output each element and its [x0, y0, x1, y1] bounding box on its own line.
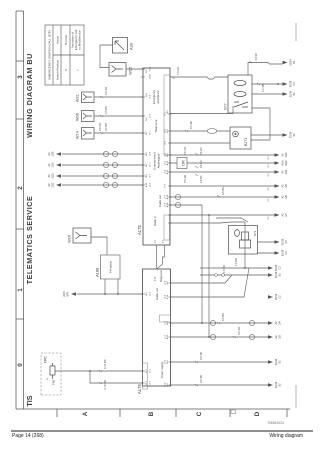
reference mark box on frame edge [231, 410, 236, 414]
svg-text:OR: OR [182, 160, 186, 166]
grid row letters A B C D [82, 411, 261, 416]
svg-text:B2: B2 [279, 383, 282, 387]
svg-text:0.5 SB: 0.5 SB [255, 53, 258, 61]
bottom off-page arrows [268, 153, 280, 386]
wire A175 to B271 second [170, 142, 230, 144]
inter-unit links between A175 blocks [157, 245, 165, 269]
svg-text:S77: S77 [224, 103, 228, 110]
svg-text:A:3: A:3 [166, 129, 169, 133]
svg-text:1.5 RD: 1.5 RD [222, 265, 226, 273]
svg-text:TIS: TIS [25, 395, 34, 406]
svg-text:Telephone: Telephone [154, 119, 158, 132]
wire gauge tick marks [99, 61, 260, 386]
svg-text:TELEMATICS SERVICE: TELEMATICS SERVICE [25, 196, 34, 285]
svg-text:1/3: 1/3 [279, 335, 282, 339]
control unit A175 block 2 [143, 269, 171, 386]
svg-text:W15: W15 [128, 66, 133, 75]
svg-text:C3: C3 [293, 82, 296, 86]
svg-text:C2: C2 [279, 295, 282, 299]
A175 block2 inner connector rect [160, 315, 171, 322]
svg-text:Diagnose: Diagnose [159, 270, 163, 282]
svg-text:4:2: 4:2 [163, 239, 165, 243]
svg-text:0.5: 0.5 [268, 216, 270, 220]
svg-text:Audio out: Audio out [158, 195, 162, 207]
wire A188 to A175 block2 with off-page arrow [77, 293, 143, 295]
svg-text:to MedService: to MedService [78, 30, 82, 50]
svg-text:A:1: A:1 [145, 292, 148, 296]
svg-text:0.5 WT: 0.5 WT [104, 122, 108, 131]
svg-text:0.5 GR: 0.5 GR [200, 160, 203, 168]
svg-text:B2: B2 [279, 360, 282, 364]
section titles [25, 53, 34, 407]
svg-text:12:7: 12:7 [149, 162, 151, 167]
svg-text:A:9: A:9 [145, 174, 148, 178]
svg-text:16:3: 16:3 [149, 291, 151, 296]
svg-text:0.75 RD: 0.75 RD [103, 380, 107, 390]
svg-text:0: 0 [17, 363, 24, 367]
svg-text:1.5 RD: 1.5 RD [234, 258, 238, 266]
svg-text:1/8: 1/8 [285, 195, 288, 199]
svg-text:B:8: B:8 [167, 383, 169, 387]
wires F85 to A175 block2 [55, 371, 143, 383]
antenna W15 [109, 63, 126, 77]
svg-text:1.0 SB: 1.0 SB [261, 84, 265, 92]
svg-text:1/16: 1/16 [52, 151, 55, 156]
wire S77 loop to B271 [251, 108, 270, 140]
A175 pin labels block2 [145, 281, 169, 387]
svg-text:0.5 GN: 0.5 GN [237, 327, 241, 335]
svg-text:B:7: B:7 [146, 131, 148, 135]
wire A175 to S77 pin a [170, 106, 233, 114]
svg-text:9/P1: 9/P1 [67, 291, 70, 297]
power distribution runs [200, 268, 268, 275]
upper-right off-page arrows [283, 61, 288, 137]
svg-text:1/13: 1/13 [52, 173, 55, 178]
svg-text:16:5: 16:5 [149, 113, 151, 118]
pin ticks block1 top edge [141, 69, 173, 385]
svg-text:0.5 SB: 0.5 SB [199, 352, 203, 360]
arrow reference labels [48, 151, 55, 187]
svg-text:B: B [148, 411, 155, 416]
svg-text:W16: W16 [67, 234, 72, 243]
svg-text:Audio in: Audio in [153, 216, 157, 227]
branch wire to arrow from pair [209, 214, 275, 216]
svg-text:0.5: 0.5 [268, 156, 270, 160]
svg-text:assistance: assistance [156, 90, 160, 104]
table: emergency switch call legend [45, 25, 84, 85]
audio return wires into connector cluster [170, 218, 248, 223]
svg-text:B:2: B:2 [146, 369, 148, 373]
svg-text:B:3: B:3 [146, 381, 148, 385]
junction nodes [201, 322, 203, 324]
wires A175 block1 down to bottom arrows [170, 155, 275, 186]
svg-text:A: A [82, 411, 89, 416]
svg-text:FM splitter: FM splitter [109, 261, 113, 273]
svg-text:0.5 GN: 0.5 GN [104, 87, 108, 95]
svg-text:A175: A175 [137, 225, 142, 235]
svg-text:0.5 BN: 0.5 BN [200, 175, 203, 183]
svg-text:B2: B2 [293, 133, 296, 137]
svg-text:A:7: A:7 [145, 163, 148, 167]
audio out wire straight down [170, 196, 275, 198]
svg-text:10:2: 10:2 [149, 380, 151, 385]
svg-text:K71: K71 [253, 230, 257, 236]
frame left border (portrait) / top line [15, 11, 17, 409]
twisted pair symbols [175, 194, 254, 339]
svg-text:1/11: 1/11 [285, 169, 288, 174]
svg-text:1/10: 1/10 [285, 152, 288, 157]
svg-text:3: 3 [17, 75, 24, 79]
svg-text:0: 0 [64, 69, 68, 71]
svg-text:4:10: 4:10 [155, 276, 157, 281]
wire W21 to A175 [94, 96, 143, 98]
svg-text:Normal: Normal [64, 35, 68, 45]
frame right edge faint segments [295, 23, 297, 408]
svg-text:0.5 VO: 0.5 VO [183, 147, 187, 155]
svg-text:A:10: A:10 [145, 182, 148, 187]
svg-text:0.75 RD: 0.75 RD [103, 359, 107, 369]
svg-text:A:2: A:2 [166, 110, 169, 114]
svg-text:C3: C3 [285, 251, 288, 255]
svg-text:EMERGENCY SWITCH CALL (E/T): EMERGENCY SWITCH CALL (E/T) [47, 30, 51, 79]
block2 speaker pins join pair [171, 323, 210, 337]
grid letter ticks [57, 409, 287, 417]
svg-text:12:4: 12:4 [149, 182, 151, 187]
wire A175 to S77 pin b with inline connector jog [170, 77, 228, 79]
svg-text:0.5: 0.5 [268, 187, 270, 191]
A188 stub wires [105, 279, 118, 294]
svg-text:9/Q2: 9/Q2 [285, 160, 288, 166]
svg-text:1/15: 1/15 [52, 162, 55, 167]
svg-text:A:5: A:5 [166, 153, 169, 157]
svg-text:Audio out: Audio out [155, 288, 159, 300]
svg-text:Action: Action [55, 36, 59, 45]
svg-text:WIRING DIAGRAM BU: WIRING DIAGRAM BU [25, 53, 34, 138]
pre-arrow wire labels [268, 156, 270, 220]
twisted pair symbols [103, 151, 117, 187]
K71 feed wires [244, 222, 246, 268]
frame bottom border (portrait) / left edge [16, 408, 290, 410]
K71 outputs to arrows [258, 242, 275, 253]
svg-text:0.5 BN: 0.5 BN [221, 313, 225, 321]
grid strip ticks [16, 11, 24, 319]
svg-text:B2: B2 [293, 92, 296, 96]
svg-text:1/4: 1/4 [279, 321, 282, 325]
FM splitter A188 [101, 255, 121, 279]
A175 pin labels block1 bottom [166, 110, 169, 208]
svg-text:A:12: A:12 [166, 160, 169, 165]
fuse F85 [50, 363, 55, 379]
svg-text:1.0 GN: 1.0 GN [176, 67, 180, 75]
antenna W21 [82, 92, 95, 103]
splice nodes [215, 274, 218, 277]
svg-text:B2: B2 [279, 273, 282, 277]
svg-text:0.5 BN: 0.5 BN [221, 187, 225, 195]
svg-text:4:10: 4:10 [167, 294, 169, 299]
wire W16 to A188 [91, 237, 107, 255]
svg-text:W21: W21 [76, 94, 80, 102]
A175 pin number second rows [149, 66, 166, 387]
block2 pins slant to runs [171, 268, 250, 297]
svg-text:A:4: A:4 [166, 321, 169, 325]
svg-text:0.5 BN: 0.5 BN [104, 106, 108, 114]
microphone B271 [230, 127, 251, 149]
svg-text:FRC: FRC [44, 355, 48, 363]
control unit A175 block 1 [143, 68, 170, 245]
svg-text:W06: W06 [76, 113, 80, 121]
bottom arrow reference labels [275, 152, 288, 388]
svg-text:16:2: 16:2 [149, 94, 151, 99]
svg-text:B:5: B:5 [146, 117, 148, 121]
svg-text:0.5 SB: 0.5 SB [189, 121, 193, 129]
fuse box FRC (dashed) [41, 353, 61, 395]
antenna W16 [73, 228, 91, 243]
svg-text:0.5: 0.5 [268, 173, 270, 177]
svg-text:B2: B2 [293, 60, 296, 64]
relay connector K71 [229, 226, 258, 255]
svg-text:B271: B271 [244, 138, 248, 146]
svg-text:1/12: 1/12 [52, 182, 55, 187]
antenna amplifier A39 [113, 38, 128, 54]
svg-text:12:3: 12:3 [164, 140, 166, 145]
svg-text:16:7: 16:7 [149, 130, 151, 135]
svg-text:1: 1 [76, 69, 80, 71]
svg-text:A175: A175 [137, 384, 142, 394]
inline connector oval [207, 129, 217, 134]
footer [11, 430, 313, 432]
svg-text:F85: F85 [52, 379, 56, 385]
svg-text:1: 1 [17, 288, 24, 292]
svg-text:Power supply: Power supply [160, 361, 164, 378]
svg-text:0.5 GN: 0.5 GN [98, 123, 102, 131]
svg-text:0.5 SB: 0.5 SB [199, 375, 203, 383]
wire A39 to W15 [100, 45, 113, 68]
svg-text:1/7: 1/7 [285, 213, 288, 217]
A175 block2 ground wires [171, 362, 269, 385]
antenna W06 [82, 111, 95, 122]
wire W15 to A175 [126, 68, 143, 70]
svg-text:4:8: 4:8 [167, 281, 169, 285]
svg-text:2: 2 [17, 186, 24, 190]
svg-text:A:13: A:13 [166, 169, 169, 174]
wire A175 to B271 via inline connector [170, 130, 230, 132]
A175 block1 inner connector bar [164, 75, 170, 155]
svg-text:16:44: 16:44 [149, 74, 151, 80]
svg-text:4:1: 4:1 [155, 239, 157, 243]
svg-text:C3: C3 [285, 240, 288, 244]
svg-text:+: + [46, 378, 50, 380]
svg-text:W14: W14 [76, 131, 80, 139]
svg-text:C3: C3 [279, 266, 282, 270]
wire W14 to A175 [94, 132, 143, 134]
A175 pin labels block1 top [145, 69, 148, 188]
audio wires to radio with off-page arrows [62, 154, 143, 185]
B271 return wire [251, 134, 283, 136]
svg-text:0.5: 0.5 [268, 198, 270, 202]
node junctions [104, 293, 106, 295]
jogged wire right of S77 [248, 63, 283, 76]
svg-text:12:5: 12:5 [149, 173, 151, 178]
switch S77 [228, 75, 252, 113]
off-page arrows up [56, 152, 61, 186]
svg-text:A39: A39 [129, 42, 134, 50]
svg-text:10:1: 10:1 [149, 368, 151, 373]
wire gauge labels mid-run [98, 121, 241, 335]
svg-text:A:6: A:6 [145, 152, 148, 156]
svg-text:A:15: A:15 [166, 194, 169, 199]
A175 block2 top connector bar [143, 363, 148, 389]
antenna W14 [82, 128, 95, 140]
wire color code box OR [177, 158, 187, 169]
svg-text:B:6: B:6 [167, 360, 169, 364]
audio pair routed left to speaker lines [170, 205, 268, 337]
svg-text:0.5: 0.5 [268, 164, 270, 168]
svg-text:13:6: 13:6 [164, 183, 166, 188]
svg-text:B:1: B:1 [146, 69, 148, 73]
svg-text:0.5 VO: 0.5 VO [200, 147, 203, 155]
svg-text:C: C [196, 411, 203, 416]
svg-text:Audiosignal: Audiosignal [156, 153, 160, 168]
svg-text:Switch Position: Switch Position [55, 59, 59, 80]
S77 output wires down [252, 84, 283, 94]
svg-text:0.5 GR: 0.5 GR [183, 175, 187, 183]
grid column numbers 0 1 2 3 [17, 75, 24, 367]
svg-text:A188: A188 [95, 267, 100, 277]
svg-text:16:41: 16:41 [149, 66, 151, 72]
wire W06 to A175 [94, 115, 143, 117]
svg-text:B:4: B:4 [146, 93, 148, 97]
svg-text:D: D [254, 411, 261, 416]
svg-text:1/9: 1/9 [285, 184, 288, 188]
svg-text:A:11: A:11 [166, 334, 169, 339]
svg-text:A:16: A:16 [166, 202, 169, 207]
A175 internal function labels [152, 89, 164, 378]
svg-text:12:8: 12:8 [149, 151, 151, 156]
grid number strip divider [23, 11, 25, 409]
